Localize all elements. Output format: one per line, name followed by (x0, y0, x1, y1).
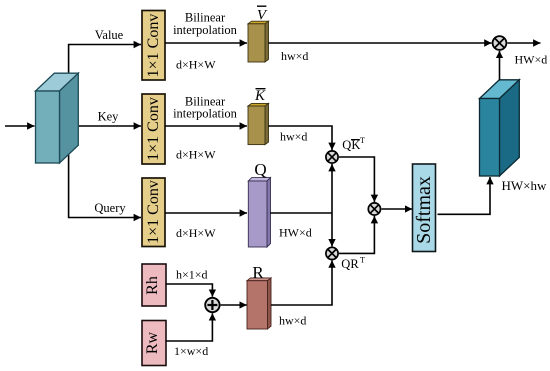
label Bilinear interpolation (value row) (173, 11, 238, 38)
attention map cuboid (480, 80, 520, 176)
wire Vbar to top multiplier (268, 42, 491, 44)
label QKbarT (342, 136, 365, 152)
svg-text:K: K (254, 88, 266, 104)
svg-text:hw×d: hw×d (281, 49, 308, 63)
multiplier QR (326, 247, 338, 259)
wire conv1 to Vbar (165, 42, 247, 44)
Rh box (142, 264, 166, 306)
wire conv3 to Q (165, 212, 247, 214)
wire QK to middle multiplier (339, 157, 374, 202)
tensor bar Vbar (248, 21, 269, 62)
svg-text:1×1 Conv: 1×1 Conv (145, 97, 162, 161)
wire output arrow (507, 42, 540, 44)
wire Rh to adder (166, 284, 213, 297)
svg-text:Rh: Rh (144, 276, 161, 295)
wire QR to middle multiplier (339, 216, 374, 253)
svg-text:hw×d: hw×d (280, 130, 307, 144)
svg-text:hw×d: hw×d (279, 314, 306, 328)
conv box U3 (Query 1x1 Conv) (142, 178, 165, 247)
svg-text:1×w×d: 1×w×d (174, 344, 208, 358)
wire Rw to adder (166, 313, 213, 341)
svg-text:Query: Query (94, 201, 126, 215)
wire key branch (70, 125, 141, 127)
svg-text:d×H×W: d×H×W (176, 58, 216, 72)
label Bilinear interpolation (key row) (173, 95, 238, 121)
svg-text:h×1×d: h×1×d (176, 268, 208, 282)
label Vbar (257, 6, 268, 23)
svg-text:T: T (360, 136, 365, 145)
wire adder to R (221, 304, 247, 306)
multiplier QKbar (326, 151, 338, 163)
multiplier middle (368, 203, 380, 215)
wire middle multiplier to softmax (381, 208, 412, 210)
svg-text:Softmax: Softmax (413, 176, 435, 244)
wire softmax to attention map (438, 177, 491, 214)
tensor bar R (247, 278, 271, 329)
svg-text:HW×hw: HW×hw (502, 178, 547, 193)
conv box U1 (Value 1x1 Conv) (142, 11, 165, 81)
wire R to QR multiplier (271, 260, 332, 305)
svg-text:Key: Key (98, 110, 120, 124)
label QRT (341, 256, 365, 271)
wire attention map to top multiplier (499, 51, 501, 81)
svg-text:HW×d: HW×d (515, 53, 548, 67)
tensor bar Kbar (248, 103, 269, 144)
wire query branch (69, 150, 141, 218)
multiplier top (493, 36, 507, 50)
tensor bar Q (248, 178, 270, 247)
Rw box (142, 321, 166, 366)
svg-text:Q: Q (254, 160, 266, 179)
adder node (205, 298, 219, 312)
svg-text:QR: QR (341, 257, 359, 271)
wire Q to QK and QR multipliers (270, 212, 332, 214)
svg-text:1×1 Conv: 1×1 Conv (145, 14, 162, 78)
wire Kbar to QK multiplier (268, 126, 332, 150)
wire input arrow (5, 125, 35, 127)
svg-text:Value: Value (95, 28, 124, 42)
softmax box (413, 164, 436, 252)
label Kbar (254, 88, 266, 104)
svg-text:interpolation: interpolation (173, 107, 238, 121)
conv box U2 (Key 1x1 Conv) (142, 94, 165, 164)
svg-text:d×H×W: d×H×W (176, 226, 216, 240)
svg-text:T: T (360, 256, 365, 265)
svg-text:R: R (252, 263, 264, 282)
svg-text:Rw: Rw (144, 331, 161, 354)
svg-text:HW×d: HW×d (279, 226, 312, 240)
svg-text:interpolation: interpolation (173, 23, 238, 37)
svg-text:d×H×W: d×H×W (176, 148, 216, 162)
input feature map cuboid (36, 73, 79, 163)
wire conv2 to Kbar (165, 125, 247, 127)
wire value branch (69, 45, 141, 86)
svg-text:1×1 Conv: 1×1 Conv (145, 180, 162, 244)
